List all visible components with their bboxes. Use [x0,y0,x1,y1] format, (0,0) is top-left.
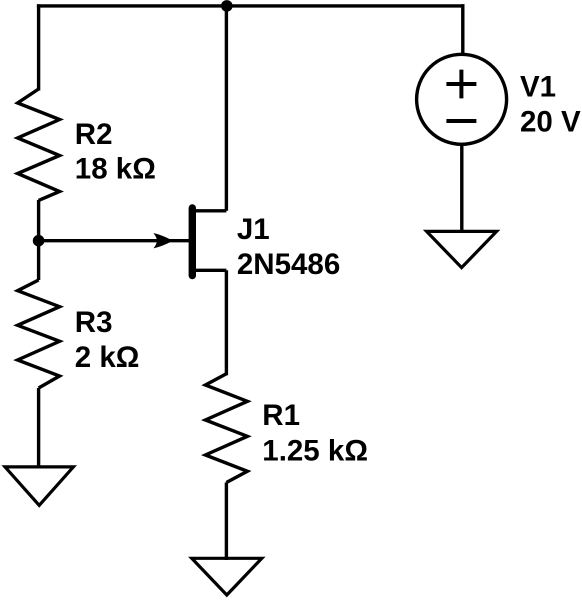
resistor R1 [205,374,247,483]
gate arrowhead of J1 [153,233,172,248]
svg-text:18 kΩ: 18 kΩ [75,152,156,185]
svg-text:1.25 kΩ: 1.25 kΩ [262,435,368,468]
V1 plus sign [446,70,476,99]
wire R1 to ground [225,483,228,561]
svg-text:2N5486: 2N5486 [237,248,340,281]
ground middle [192,558,262,595]
svg-text:R1: R1 [262,399,300,432]
wire J1 drain horizontal [192,209,226,212]
wire J1 drain vertical to rail [225,6,228,211]
wire J1 source horizontal [192,269,226,272]
wire R2 to gate node [37,200,40,280]
ground left [5,467,73,505]
transistor J1 channel bar [189,208,196,276]
wire J1 source vertical to R1 [225,270,228,375]
svg-text:V1: V1 [520,70,556,103]
node top junction dot [221,0,233,12]
ground right [427,231,497,267]
svg-text:R3: R3 [75,306,113,339]
wire right drop from rail to V1 [461,4,464,54]
wire left drop from rail to R2 [37,4,40,90]
wire R3 to ground [37,388,40,468]
source V1 circle [417,54,507,144]
node gate junction dot [33,235,45,247]
resistor R3 [18,280,60,388]
wire V1 to ground [460,146,463,233]
wire top rail [37,4,465,7]
resistor R2 [18,89,60,200]
wire gate lead [39,239,189,242]
V1 minus sign [446,119,476,123]
svg-text:J1: J1 [237,213,270,246]
svg-text:R2: R2 [75,118,113,151]
svg-text:20 V: 20 V [520,106,581,139]
svg-text:2 kΩ: 2 kΩ [75,341,140,374]
